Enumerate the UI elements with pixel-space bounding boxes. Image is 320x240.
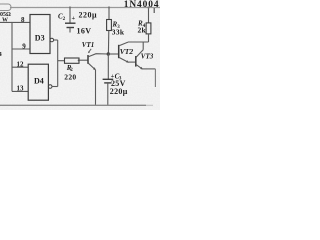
svg-text:13: 13: [17, 84, 25, 92]
svg-text:8: 8: [21, 16, 25, 24]
svg-text:VT2: VT2: [120, 47, 134, 56]
svg-text:D4: D4: [34, 77, 44, 86]
svg-text:220μ: 220μ: [110, 87, 128, 96]
svg-text:9: 9: [22, 42, 26, 50]
svg-text:+: +: [72, 15, 76, 22]
svg-text:33k: 33k: [112, 28, 125, 37]
svg-text:2k: 2k: [138, 26, 147, 35]
svg-text:16V: 16V: [77, 27, 92, 36]
svg-text:VT1: VT1: [82, 41, 94, 49]
svg-text:12: 12: [17, 61, 25, 69]
svg-text:VT3: VT3: [141, 52, 154, 60]
svg-text:220μ: 220μ: [79, 11, 98, 20]
svg-text:220: 220: [64, 72, 76, 81]
svg-text:D3: D3: [35, 34, 45, 43]
